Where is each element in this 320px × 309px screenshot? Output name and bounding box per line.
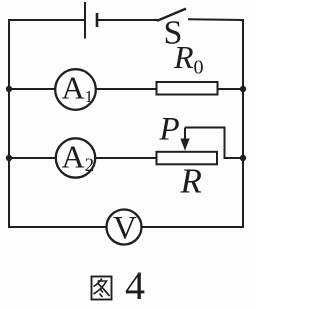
battery long plate	[84, 2, 86, 39]
wire ammeter A2 to rheostat R	[96, 157, 157, 159]
junction dot left A2 row	[6, 155, 12, 161]
wire top-left from left bus to battery	[9, 19, 84, 21]
wire switch to top-right corner	[188, 18, 243, 21]
ammeter A2 circle	[56, 138, 95, 177]
wire voltmeter to bottom-right	[141, 226, 243, 228]
wire slider to right bus	[185, 128, 243, 159]
resistor R0 body	[157, 82, 218, 95]
right bus wire	[242, 19, 244, 228]
svg-text:4: 4	[125, 263, 145, 308]
svg-text:R: R	[180, 162, 202, 201]
wire resistor R0 to right bus	[218, 88, 243, 90]
svg-text:P: P	[159, 112, 180, 148]
wire left bus to ammeter A1	[9, 88, 56, 90]
svg-text:V: V	[113, 211, 137, 247]
caption character tu (figure)	[92, 277, 112, 300]
junction dot left A1 row	[6, 86, 12, 92]
wire ammeter A1 to resistor R0	[96, 88, 156, 90]
left bus wire	[8, 19, 10, 228]
junction dot right R row	[240, 155, 246, 161]
rheostat slider arrowhead P	[180, 139, 189, 151]
wire left bus to ammeter A2	[9, 157, 56, 159]
junction dot right R0 row	[240, 86, 246, 92]
wire battery to switch	[98, 19, 158, 21]
switch S blade	[157, 9, 186, 21]
wire bottom-left to voltmeter	[9, 226, 107, 228]
voltmeter V circle	[107, 210, 142, 245]
rheostat R body	[157, 152, 218, 165]
battery short plate	[96, 13, 99, 27]
svg-text:R0: R0	[173, 39, 204, 79]
rheostat slider stem	[184, 128, 186, 142]
ammeter A1 circle	[55, 69, 96, 110]
